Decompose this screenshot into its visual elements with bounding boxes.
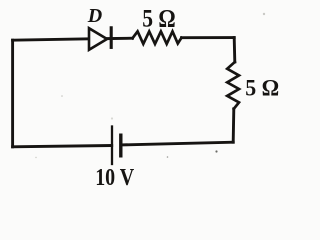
svg-text:5 Ω: 5 Ω bbox=[142, 6, 176, 33]
svg-text:10 V: 10 V bbox=[95, 164, 134, 191]
svg-text:5 Ω: 5 Ω bbox=[245, 76, 279, 102]
svg-text:D: D bbox=[87, 5, 102, 27]
